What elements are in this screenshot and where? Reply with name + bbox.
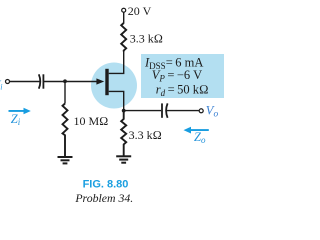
JFET Q1 channel bar — [105, 69, 108, 95]
svg-text:3.3 kΩ: 3.3 kΩ — [130, 32, 163, 46]
transistor body highlight circle — [91, 63, 137, 109]
Zo arrow — [184, 127, 209, 134]
svg-text:10 MΩ: 10 MΩ — [74, 114, 109, 128]
wire supply to RD — [123, 12, 125, 23]
wire C1 to gate node — [43, 81, 65, 83]
JFET Q1 gate arrow — [96, 78, 104, 84]
capacitor C2 — [161, 103, 163, 117]
JFET Q1 source lead — [109, 91, 124, 110]
resistor RS 3.3k (source) — [121, 111, 126, 157]
wire input to C1 — [10, 81, 40, 83]
resistor RG 10M — [63, 104, 68, 158]
wire gate — [65, 81, 99, 83]
ground (gate) — [58, 157, 73, 163]
svg-text:VP = −6 V: VP = −6 V — [152, 68, 202, 84]
resistor RD 3.3k (drain) — [121, 23, 126, 52]
svg-text:3.3 kΩ: 3.3 kΩ — [129, 128, 162, 142]
wire C2 to output — [166, 110, 199, 112]
svg-text:20 V: 20 V — [128, 4, 152, 18]
output terminal — [199, 109, 203, 113]
input terminal — [6, 80, 10, 84]
wire gate node down to RG — [64, 82, 66, 104]
supply terminal 20V — [122, 8, 126, 12]
svg-text:FIG. 8.80: FIG. 8.80 — [83, 179, 129, 191]
ground (source) — [116, 156, 131, 162]
Zi arrow — [9, 108, 31, 114]
node A (gate junction) — [63, 79, 67, 83]
svg-text:Problem 34.: Problem 34. — [74, 191, 133, 205]
capacitor C1 — [39, 74, 41, 88]
JFET Q1 drain lead — [109, 52, 124, 74]
parameter box — [141, 54, 224, 98]
node B (source junction) — [122, 109, 126, 113]
wire source node to C2 — [124, 110, 161, 112]
